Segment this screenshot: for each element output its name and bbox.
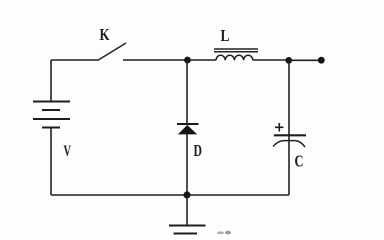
svg-text:V: V: [64, 143, 72, 160]
ground: [169, 226, 206, 234]
output terminal dot: [318, 57, 325, 64]
svg-text:K: K: [100, 25, 111, 44]
battery V: [33, 102, 70, 128]
node A junction dot (switch / diode / inductor): [184, 57, 191, 64]
wire: battery bottom lead (vertical to bottom rail): [50, 128, 52, 196]
inductor L: [214, 49, 258, 60]
label K: [100, 25, 111, 44]
wire: bottom rail: [51, 194, 289, 196]
wire: battery top lead (vertical): [50, 60, 52, 102]
node B junction dot (inductor / capacitor / output): [285, 57, 292, 64]
svg-text:C: C: [295, 152, 304, 171]
label V: [64, 143, 72, 160]
svg-text:L: L: [221, 26, 230, 45]
wire: ground stub: [186, 195, 188, 226]
wire: node A down to diode cathode: [186, 60, 188, 124]
label D: [194, 141, 203, 160]
wire: switch right contact to node A: [123, 59, 186, 61]
diode D: [177, 124, 199, 134]
capacitor polarity + mark: [275, 123, 284, 132]
label L: [221, 26, 230, 45]
wire: node B to output terminal: [290, 59, 319, 61]
wire: battery + to switch left contact: [51, 59, 98, 61]
wire: diode anode down to bottom node: [186, 134, 188, 195]
bottom node junction dot (ground node): [183, 191, 190, 198]
wire: node B down through capacitor to bottom rail: [288, 60, 290, 195]
capacitor C: [273, 135, 306, 147]
svg-text:D: D: [194, 141, 203, 160]
wire: node A to inductor: [189, 59, 216, 61]
switch K (blade): [98, 43, 127, 61]
wire: inductor to node B: [253, 59, 287, 61]
label C: [295, 152, 304, 171]
stray mark (cut-off text at bottom edge): [217, 231, 231, 235]
